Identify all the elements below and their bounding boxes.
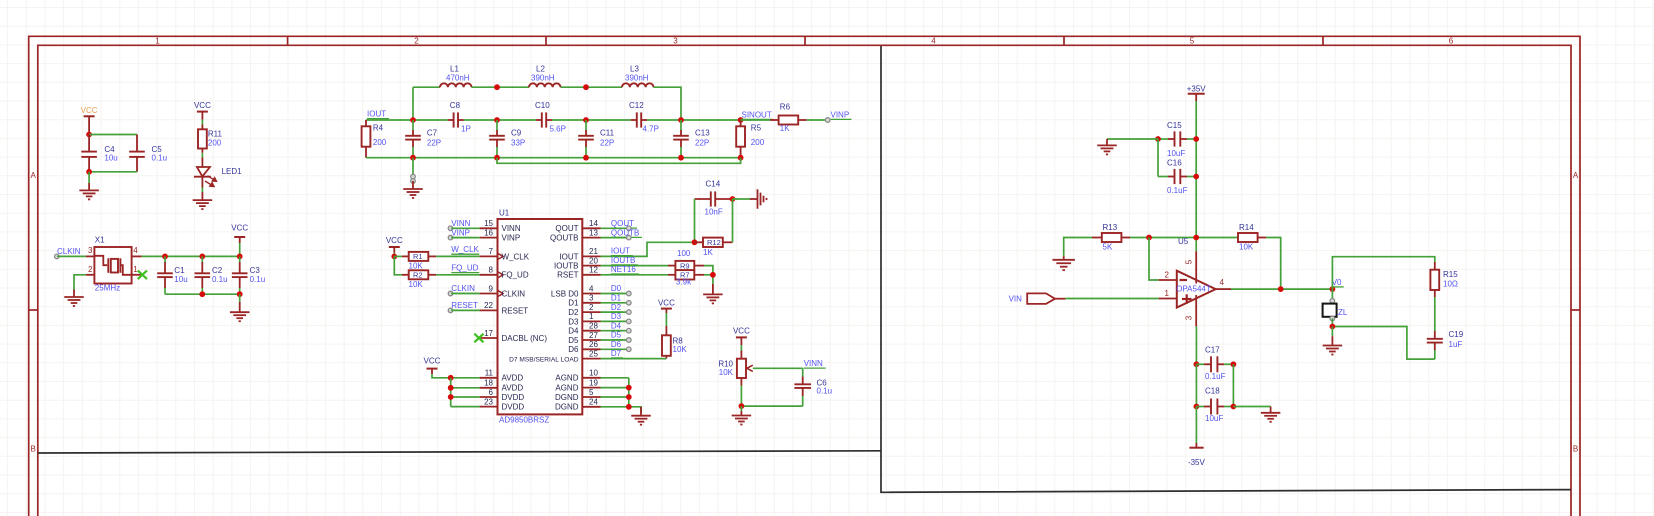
svg-text:VCC: VCC: [194, 101, 211, 110]
wire QOUT: [601, 227, 629, 229]
wire LED1 to ground: [201, 177, 203, 200]
node DGND pin5: [626, 394, 632, 400]
net label D5: [611, 331, 623, 340]
svg-text:2: 2: [1165, 270, 1170, 279]
svg-text:D4: D4: [611, 321, 622, 330]
svg-text:A: A: [1573, 171, 1579, 180]
label C4 10u: [104, 145, 117, 162]
load ZL: [1323, 299, 1337, 321]
wire C18 left down to -35V: [1195, 407, 1197, 444]
wire VINN to pin 15: [451, 227, 479, 229]
net label IOUT filter input: [367, 110, 389, 119]
capacitor C13 shunt: [673, 120, 689, 158]
net label SINOUT: [742, 110, 774, 119]
svg-text:FQ_UD: FQ_UD: [451, 264, 478, 273]
labels D0-D7 and wires: [0, 0, 1, 1]
resistor R9: [675, 261, 694, 270]
node C18 left: [1194, 404, 1200, 410]
label C17 0.1uF: [1205, 346, 1226, 381]
wire C17 right to C18 right: [1232, 364, 1234, 406]
svg-text:C8: C8: [450, 101, 461, 110]
capacitor C15: [1158, 131, 1196, 146]
svg-text:L2: L2: [536, 65, 545, 74]
svg-text:13: 13: [589, 228, 598, 237]
svg-text:21: 21: [589, 247, 598, 256]
wire IOUTB to R9: [601, 265, 676, 267]
wire R8 bottom to D7: [665, 356, 667, 359]
black box around output amplifier section: [881, 46, 1571, 492]
svg-text:10K: 10K: [409, 280, 424, 289]
svg-text:26: 26: [589, 340, 598, 349]
svg-text:CLKIN: CLKIN: [502, 289, 526, 298]
node mid rail SINOUT: [738, 117, 744, 123]
resistor R4: [362, 120, 371, 158]
svg-text:19: 19: [589, 378, 598, 387]
IC U1 body: [498, 219, 583, 414]
svg-text:4: 4: [133, 246, 138, 255]
svg-text:4: 4: [1220, 278, 1225, 287]
U1 inside pin names right: [509, 224, 579, 412]
svg-text:DVDD: DVDD: [502, 403, 525, 412]
ground below X1 pin 2: [64, 297, 84, 306]
port dot D6: [627, 347, 632, 352]
svg-text:C1: C1: [174, 266, 185, 275]
svg-text:AVDD: AVDD: [502, 374, 524, 383]
node ZL bottom junction: [1330, 324, 1336, 330]
frame column numbers: [155, 37, 1454, 46]
net label D3: [611, 312, 623, 321]
power flag VCC for AVDD DVDD: [424, 357, 441, 375]
power flag +35V: [1187, 85, 1207, 102]
svg-text:VIN: VIN: [1009, 295, 1023, 304]
svg-text:R5: R5: [751, 124, 762, 133]
no-connect X on U1 pin 17 DACBL: [474, 334, 483, 343]
U1 inside pin names left: [502, 224, 548, 411]
net label D7: [611, 349, 623, 358]
node C15 left: [1155, 136, 1161, 142]
svg-text:7: 7: [489, 247, 494, 256]
svg-text:8: 8: [489, 266, 494, 275]
wire top rail segment 1: [413, 86, 440, 88]
wire V0 to ZL: [1331, 289, 1333, 300]
svg-text:DGND: DGND: [555, 393, 579, 402]
capacitor C6: [794, 368, 811, 406]
port dot D0: [627, 291, 632, 296]
wire filter top rail left vertical: [412, 87, 414, 120]
power flag VCC above R8: [658, 299, 675, 336]
node DGND pin24: [626, 404, 632, 410]
label C13 22P: [695, 129, 710, 148]
svg-text:RESET: RESET: [451, 301, 478, 310]
svg-text:C19: C19: [1449, 330, 1464, 339]
svg-text:D0: D0: [611, 284, 622, 293]
net label RESET at U1 pin 22: [448, 301, 479, 313]
wire +35V rail down: [1195, 101, 1197, 251]
ground below ZL: [1331, 327, 1333, 346]
wire C17 to C18 left rail: [1195, 364, 1197, 406]
node C16 right: [1193, 174, 1199, 180]
port dot D1: [627, 301, 632, 306]
wire C19 bottom return to ZL: [1332, 327, 1434, 360]
wire R9 R7 common to ground: [694, 266, 713, 295]
wire D1: [601, 302, 629, 304]
svg-text:5: 5: [589, 388, 594, 397]
svg-text:R11: R11: [208, 130, 223, 139]
svg-text:200: 200: [208, 138, 222, 147]
wire bypass caps bottom rail: [165, 293, 240, 295]
U1 right pin leads: [582, 228, 600, 406]
node bottom rail C13: [678, 155, 684, 161]
node +35V rail crossing: [1193, 235, 1199, 241]
svg-text:CLKIN: CLKIN: [451, 284, 475, 293]
svg-text:22P: 22P: [427, 138, 441, 147]
svg-text:X1: X1: [95, 236, 105, 245]
label C16 0.1uF: [1167, 159, 1188, 195]
ground below R13: [1063, 256, 1065, 260]
wire IOUT pin 21 to R12 node: [601, 242, 695, 256]
port dot D3: [627, 319, 632, 324]
svg-text:IOUT: IOUT: [611, 247, 630, 256]
svg-text:5.6P: 5.6P: [550, 124, 566, 133]
svg-text:W_CLK: W_CLK: [451, 245, 479, 254]
svg-text:22P: 22P: [695, 138, 709, 147]
svg-text:A: A: [31, 171, 37, 180]
frame row letters: [31, 171, 1579, 454]
wire X1 pin 4 to bypass caps: [132, 255, 240, 257]
wire to pin 18: [451, 387, 480, 389]
net label V0: [1332, 278, 1344, 287]
svg-text:1: 1: [155, 37, 160, 46]
net label VINP with port dot: [825, 110, 851, 122]
net label CLKIN at U1 pin 9: [448, 284, 478, 296]
net label IOUT at U1 pin 21: [611, 247, 633, 256]
resistor R12: [695, 238, 733, 247]
net label D2: [611, 303, 623, 312]
svg-text:B: B: [31, 445, 36, 454]
wire filter mid rail segment 4: [647, 119, 741, 121]
svg-text:DGND: DGND: [555, 403, 579, 412]
svg-text:11: 11: [485, 369, 494, 378]
input flag VIN: [1009, 293, 1066, 304]
label C1 10u: [174, 266, 187, 284]
svg-text:D3: D3: [611, 312, 622, 321]
svg-text:2: 2: [88, 265, 93, 274]
resistor R13: [1092, 233, 1130, 242]
svg-text:2: 2: [589, 303, 594, 312]
svg-text:D4: D4: [568, 327, 579, 336]
svg-text:20: 20: [589, 256, 598, 265]
svg-text:4: 4: [931, 37, 936, 46]
wire C6 bottom to R10 bottom: [741, 405, 802, 407]
resistor R1: [394, 252, 436, 261]
label R5 200: [751, 124, 765, 147]
svg-text:IOUT: IOUT: [367, 110, 386, 119]
svg-text:18: 18: [484, 379, 493, 388]
svg-text:R13: R13: [1103, 223, 1118, 232]
wire C15 left to ground: [1107, 138, 1158, 140]
svg-text:10: 10: [589, 369, 598, 378]
svg-text:24: 24: [589, 398, 598, 407]
label X1 25MHz: [95, 236, 120, 293]
label R1 10K: [409, 252, 424, 270]
wire R14 right to output: [1266, 238, 1281, 290]
net label QOUTB at U1 pin 13: [611, 228, 642, 237]
node AGND pin19: [626, 385, 632, 391]
wire filter bottom rail: [366, 157, 741, 159]
svg-text:QOUTB: QOUTB: [611, 228, 639, 237]
net label D1: [611, 294, 623, 303]
wire D5: [601, 339, 629, 341]
node C17 right: [1231, 361, 1237, 367]
svg-text:27: 27: [589, 331, 598, 340]
svg-text:D2: D2: [568, 308, 579, 317]
svg-text:QOUT: QOUT: [555, 224, 578, 233]
wire filter mid rail segment 2: [464, 119, 536, 121]
capacitor C14: [695, 191, 733, 206]
op-amp U5 OPA544T: [1159, 251, 1231, 326]
port dot D5: [627, 338, 632, 343]
label C2 0.1u: [212, 266, 228, 284]
svg-text:R6: R6: [780, 102, 791, 111]
node R12 left junction: [692, 239, 698, 245]
net label D6: [611, 340, 623, 349]
svg-text:D1: D1: [568, 299, 579, 308]
wire R11 to LED1: [201, 149, 203, 168]
svg-text:22: 22: [484, 301, 493, 310]
power flag VCC (orange) top-left: [81, 106, 98, 134]
inductor L1: [440, 83, 472, 87]
svg-text:C3: C3: [250, 266, 261, 275]
svg-text:SINOUT: SINOUT: [742, 110, 772, 119]
svg-text:470nH: 470nH: [446, 73, 470, 82]
wire RESET to pin 22: [451, 309, 479, 311]
svg-text:V0: V0: [1332, 278, 1342, 287]
svg-text:DACBL (NC): DACBL (NC): [502, 334, 548, 343]
node bottom rail C7: [410, 155, 416, 161]
wire filter mid rail segment 3: [552, 119, 631, 121]
svg-text:D5: D5: [611, 331, 622, 340]
svg-text:16: 16: [484, 228, 493, 237]
node C15 right: [1193, 136, 1199, 142]
wire C4 top to C5 top: [89, 134, 137, 136]
capacitor C8 series: [448, 112, 464, 127]
net label CLKIN with port dot: [55, 247, 86, 259]
potentiometer R10: [737, 359, 753, 378]
svg-text:L1: L1: [450, 65, 459, 74]
wire inverting branch down to pin 2: [1149, 238, 1159, 281]
capacitor C5: [129, 135, 145, 172]
ground below U1 right: [640, 407, 642, 416]
wire ZL bottom: [1331, 319, 1333, 327]
power flag VCC for R1 R2: [386, 236, 403, 256]
svg-text:VCC: VCC: [733, 327, 750, 336]
svg-text:28: 28: [589, 322, 598, 331]
wire C18 right to ground: [1233, 406, 1270, 408]
svg-text:33P: 33P: [511, 138, 525, 147]
label R15 10ohm: [1443, 270, 1458, 289]
wire supply bus vertical: [450, 378, 452, 407]
svg-text:3.9k: 3.9k: [676, 278, 692, 287]
svg-text:VCC: VCC: [424, 357, 441, 366]
ground below filter at C7 with port dots: [411, 158, 416, 189]
node C3 bottom: [237, 291, 243, 297]
svg-text:3: 3: [88, 246, 93, 255]
label C7 22P: [427, 129, 441, 148]
pin numbers X1: [88, 246, 138, 274]
svg-text:IOUTB: IOUTB: [611, 256, 635, 265]
wire D7 bus: [601, 358, 667, 360]
svg-text:R14: R14: [1239, 223, 1254, 232]
svg-text:W_CLK: W_CLK: [502, 252, 530, 261]
svg-text:R9: R9: [680, 261, 690, 270]
svg-text:1uF: 1uF: [1449, 340, 1463, 349]
svg-text:10K: 10K: [409, 261, 424, 270]
svg-text:VCC: VCC: [231, 224, 248, 233]
svg-text:1P: 1P: [461, 124, 471, 133]
svg-text:0.1u: 0.1u: [817, 387, 833, 396]
svg-text:12: 12: [589, 266, 598, 275]
svg-text:4.7P: 4.7P: [643, 124, 659, 133]
wire D2: [601, 311, 629, 313]
svg-text:200: 200: [751, 138, 765, 147]
svg-text:CLKIN: CLKIN: [57, 247, 81, 256]
ground right of C14 rotated: [750, 198, 758, 200]
wire to pin 23: [451, 406, 480, 408]
node pin6 junction: [448, 394, 454, 400]
svg-text:C11: C11: [600, 129, 615, 138]
svg-text:0.1u: 0.1u: [250, 275, 266, 284]
wire R12 right up to C14: [732, 199, 734, 242]
power flag VCC above R10: [733, 327, 750, 359]
svg-text:R15: R15: [1443, 270, 1458, 279]
svg-text:25MHz: 25MHz: [95, 284, 120, 293]
capacitor C1: [157, 256, 173, 294]
node C1 top: [162, 254, 168, 260]
svg-text:D7: D7: [611, 349, 622, 358]
node feedback junction: [1278, 286, 1284, 292]
svg-text:3: 3: [1185, 315, 1194, 320]
svg-text:U1: U1: [499, 208, 510, 217]
wire pin 3 down to C17: [1195, 326, 1197, 364]
wire R15 to C19: [1434, 297, 1436, 331]
svg-text:1K: 1K: [703, 248, 713, 257]
wire R13 left to ground: [1064, 238, 1092, 257]
wire R10 bottom: [740, 378, 742, 406]
label C6 0.1u: [817, 379, 833, 396]
label C11 22P: [600, 129, 615, 148]
label R14 10K: [1239, 223, 1254, 251]
wire C14 left to R12 left: [694, 199, 696, 242]
label R13 5K: [1103, 223, 1118, 251]
svg-text:ZL: ZL: [1338, 308, 1348, 317]
wire VIN to pin 1: [1065, 298, 1158, 300]
svg-text:NET16: NET16: [611, 265, 636, 274]
svg-text:10u: 10u: [104, 153, 117, 162]
wire QOUTB: [601, 237, 629, 239]
resistor R6: [779, 116, 799, 125]
wire R13 to U5 rail: [1130, 237, 1238, 239]
svg-text:D1: D1: [611, 294, 622, 303]
ground below R10: [740, 406, 742, 415]
capacitor C9 shunt: [489, 120, 505, 158]
wire R2 to FQ_UD pin 8: [436, 274, 480, 276]
port dot QOUTB: [627, 235, 632, 240]
node mid rail C11: [583, 117, 589, 123]
svg-text:1K: 1K: [780, 124, 790, 133]
label R4 200: [373, 124, 387, 147]
svg-text:10Ω: 10Ω: [1443, 280, 1458, 289]
node mid rail C9: [494, 117, 500, 123]
wire CLKIN to pin 9: [451, 293, 479, 295]
net label IOUTB at U1 pin 20: [611, 256, 638, 265]
svg-text:AVDD: AVDD: [502, 384, 524, 393]
svg-text:10u: 10u: [174, 275, 187, 284]
capacitor C12 series: [631, 112, 647, 127]
svg-text:17: 17: [484, 329, 493, 338]
label C3 0.1u: [250, 266, 266, 284]
wire C14 right to ground: [733, 198, 751, 200]
svg-text:10nF: 10nF: [705, 207, 723, 216]
wire VINP to pin 16: [451, 237, 479, 239]
svg-text:10K: 10K: [719, 368, 734, 377]
svg-text:C14: C14: [706, 179, 721, 188]
label R6 1K: [780, 102, 791, 133]
resistor R8: [662, 335, 671, 356]
svg-text:C16: C16: [1167, 159, 1182, 168]
svg-text:0.1u: 0.1u: [212, 275, 228, 284]
svg-text:R4: R4: [373, 124, 384, 133]
svg-text:15: 15: [484, 219, 493, 228]
wire op-amp output: [1231, 288, 1332, 290]
svg-text:IOUT: IOUT: [559, 252, 578, 261]
svg-text:4: 4: [589, 284, 594, 293]
svg-text:25: 25: [589, 349, 598, 358]
svg-text:IOUTB: IOUTB: [554, 262, 578, 271]
power flag VCC above C3: [231, 224, 248, 257]
svg-text:AGND: AGND: [555, 374, 578, 383]
svg-text:D7 MSB/SERIAL LOAD: D7 MSB/SERIAL LOAD: [509, 357, 579, 364]
svg-text:L3: L3: [630, 65, 639, 74]
node VCC-C4 top junction: [86, 132, 92, 138]
svg-text:B: B: [1573, 445, 1578, 454]
resistor R5: [736, 120, 745, 158]
label L3 390nH: [625, 65, 649, 83]
svg-text:200: 200: [373, 138, 387, 147]
svg-text:6: 6: [1449, 37, 1454, 46]
capacitor C10 series: [536, 112, 552, 127]
inductor L2: [529, 83, 561, 87]
svg-text:R12: R12: [707, 238, 721, 247]
svg-text:LSB D0: LSB D0: [551, 289, 579, 298]
U1 right pin numbers: [589, 219, 598, 407]
svg-text:0.1uF: 0.1uF: [1167, 186, 1188, 195]
svg-text:VINP: VINP: [831, 110, 850, 119]
svg-text:22P: 22P: [600, 138, 614, 147]
svg-text:23: 23: [484, 397, 493, 406]
svg-text:5K: 5K: [1103, 242, 1113, 251]
wire SINOUT to R6: [741, 119, 779, 121]
label C10 5.6P: [535, 101, 566, 133]
wire top rail segment 2: [472, 86, 530, 88]
capacitor C16: [1158, 169, 1196, 184]
wire R10 wiper to VINN: [753, 367, 803, 369]
svg-text:-35V: -35V: [1188, 458, 1206, 467]
svg-text:VINN: VINN: [502, 224, 521, 233]
ground below C4: [88, 172, 90, 191]
svg-text:FQ_UD: FQ_UD: [502, 271, 529, 280]
svg-text:D3: D3: [568, 317, 579, 326]
crystal X1: [94, 247, 131, 284]
